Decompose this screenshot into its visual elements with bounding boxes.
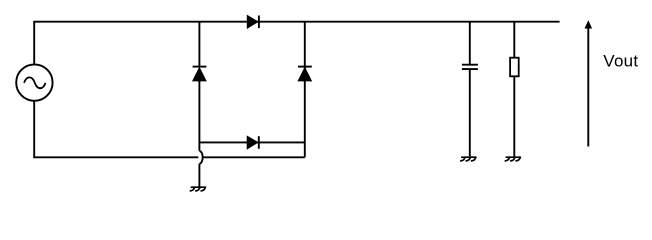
- svg-text:Vout: Vout: [603, 52, 638, 71]
- ground (bridge lower-left node): [190, 187, 205, 191]
- diode D4 (right bridge branch, pointing up): [298, 67, 312, 81]
- wire bottom rail left segment: [33, 156, 198, 158]
- capacitor C1: [462, 65, 478, 69]
- diode row wire (bridge bottom arm): [199, 141, 304, 143]
- wire right bridge vertical: [304, 22, 306, 158]
- Vout arrow: [585, 21, 591, 146]
- ground (capacitor): [461, 157, 476, 161]
- wire left bridge vertical to ground: [198, 164, 200, 187]
- diode D1 (series, top rail, pointing right): [247, 16, 259, 29]
- wire bottom rail right segment: [204, 156, 305, 158]
- wire left vertical upper (source top lead): [33, 22, 35, 65]
- wire left vertical lower (source bottom lead): [33, 101, 35, 158]
- AC source V1: [16, 64, 52, 100]
- wire resistor top lead: [513, 22, 515, 58]
- diode D3 (bottom arm, pointing right): [247, 136, 259, 149]
- wire capacitor bottom lead: [469, 69, 471, 156]
- wire hop (jump over bottom rail, no connection): [199, 151, 202, 164]
- diode D2 (left bridge branch, pointing up): [193, 67, 207, 81]
- wire resistor bottom lead: [513, 76, 515, 156]
- ground (resistor): [505, 157, 520, 161]
- wire left bridge vertical middle: [198, 80, 200, 151]
- resistor R1: [510, 58, 519, 77]
- wire left bridge vertical upper: [198, 22, 200, 67]
- wire top rail: [33, 21, 559, 23]
- wire capacitor top lead: [469, 22, 471, 65]
